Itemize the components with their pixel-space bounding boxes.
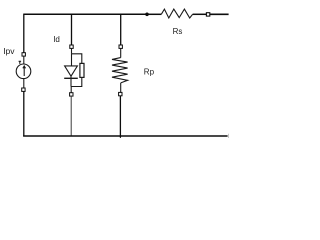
wire: Rs to output terminal <box>193 13 207 15</box>
pin square: diode bottom terminal <box>70 93 73 96</box>
svg-text:Rs: Rs <box>173 27 183 36</box>
node: junction dot on top rail <box>145 13 149 17</box>
pin square: Rp bottom terminal <box>119 92 122 95</box>
pin square: Ipv bottom terminal <box>22 88 25 91</box>
wire: Ipv bottom to bottom rail <box>23 91 25 136</box>
pin square: diode top terminal <box>70 45 73 48</box>
terminal: faint end mark bottom right <box>228 134 230 138</box>
wire: left vertical from top rail to Ipv <box>23 14 25 53</box>
wire: output terminal to right end (top) <box>210 13 229 15</box>
wire: top rail (junction node to Rs) <box>147 13 161 15</box>
label Id <box>53 35 60 44</box>
terminal: open square output node (top right) <box>206 13 209 16</box>
svg-text:Ipv: Ipv <box>3 46 15 56</box>
svg-text:Id: Id <box>53 35 60 44</box>
wire: top rail (Ipv corner to junction node) <box>24 13 147 15</box>
pin square: Ipv top terminal <box>22 53 25 56</box>
wire: Rp branch from top rail down <box>120 14 122 45</box>
svg-text:Rp: Rp <box>144 67 155 76</box>
current source Ipv (circle with up arrow) <box>16 56 31 88</box>
resistor Rs (horizontal zigzag) <box>161 9 192 18</box>
diode Id (triangle + bar with parallel box) <box>64 48 84 92</box>
wire: diode bottom to bottom rail <box>70 96 72 136</box>
resistor Rp (vertical zigzag) <box>112 48 128 92</box>
wire: Rp bottom to bottom rail <box>119 96 121 137</box>
label Rp <box>144 67 155 76</box>
wire: diode branch from top rail down <box>71 14 73 45</box>
label Ipv <box>3 46 15 56</box>
label Rs <box>173 27 183 36</box>
pin square: Rp top terminal <box>119 45 122 48</box>
wire: bottom rail <box>23 136 228 138</box>
